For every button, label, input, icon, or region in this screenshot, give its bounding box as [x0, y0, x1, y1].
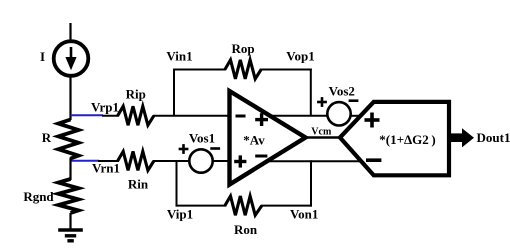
wire Ron to Von1 [261, 205, 312, 207]
op-amp inverting input minus mark [236, 115, 246, 118]
wire Vrp1 to Rip [102, 115, 119, 117]
svg-text:I: I [40, 49, 45, 64]
current source arrow [70, 47, 73, 61]
op-amp bottom minus mark [255, 155, 267, 158]
summing block *(1+dG2) [340, 102, 449, 175]
summing block minus mark [366, 158, 381, 162]
wire Vos1 to op-amp plus input [213, 160, 232, 162]
svg-text:*Av: *Av [243, 133, 265, 148]
resistor R [58, 120, 78, 159]
op-amp U1 [230, 91, 306, 185]
Vos2 minus mark [349, 99, 359, 102]
Vos2 plus mark [317, 101, 327, 104]
wire Rop to Vop1 [260, 69, 312, 71]
wire Vos2 to summing block top input [350, 115, 361, 117]
svg-text:Dout1: Dout1 [477, 130, 510, 145]
svg-text:R: R [42, 130, 52, 145]
svg-text:Vip1: Vip1 [167, 207, 193, 222]
output arrow Dout1 [450, 128, 474, 147]
wire Vip1 to Ron [176, 205, 227, 207]
svg-text:Vcm: Vcm [311, 127, 332, 138]
wire Vin1 to Rop [173, 69, 226, 71]
node Vin1 branch wire [173, 70, 175, 117]
source Vos1 [179, 144, 221, 173]
svg-text:Rin: Rin [128, 177, 149, 192]
Vos1 minus mark [210, 147, 220, 150]
Vos1 plus mark [179, 148, 189, 151]
node Vrn1 blue wire [71, 160, 100, 162]
source Vos2 [317, 97, 358, 125]
svg-text:Rip: Rip [126, 87, 146, 102]
resistor Ron [225, 196, 262, 215]
ground [58, 230, 83, 241]
svg-text:Ron: Ron [234, 222, 258, 237]
wire Vrn1 to Rin [98, 160, 119, 162]
wire top stub above current source [69, 23, 71, 40]
wire Rip to op-amp minus input [153, 115, 231, 117]
wire rail below current source [69, 77, 71, 120]
svg-text:*(1+ΔG2 ): *(1+ΔG2 ) [379, 132, 435, 147]
node Vip1 branch wire [176, 161, 178, 207]
resistor Rin [118, 151, 154, 170]
node Vop1 branch wire [310, 69, 312, 117]
resistor Rip [118, 106, 154, 125]
svg-text:Vos1: Vos1 [189, 131, 215, 146]
wire rail between R and Rgnd [69, 158, 71, 181]
op-amp top plus mark [255, 118, 268, 121]
wire op-amp output (node Vcm) [304, 136, 341, 138]
wire Rgnd to ground [69, 213, 71, 230]
svg-text:Rop: Rop [231, 41, 254, 56]
svg-text:Rgnd: Rgnd [23, 189, 54, 204]
node Vrp1 blue wire [71, 114, 104, 116]
wire op-amp right to Vop1/Vos2 (top) [268, 115, 328, 117]
resistor Rgnd [58, 179, 78, 213]
summing block plus mark [365, 118, 380, 122]
resistor Rop [225, 60, 261, 79]
node Von1 branch wire [310, 160, 312, 206]
current source I [54, 41, 89, 76]
wire Rin to Vos1 [153, 160, 190, 162]
svg-text:Vrn1: Vrn1 [92, 161, 120, 176]
wire op-amp right to Von1 (bottom) [266, 160, 362, 162]
op-amp non-inverting input plus mark [234, 160, 246, 163]
svg-text:Vin1: Vin1 [166, 49, 192, 64]
svg-text:Von1: Von1 [290, 207, 318, 222]
svg-text:Vos2: Vos2 [329, 84, 355, 99]
svg-text:Vop1: Vop1 [286, 49, 314, 64]
svg-text:Vrp1: Vrp1 [91, 100, 119, 115]
